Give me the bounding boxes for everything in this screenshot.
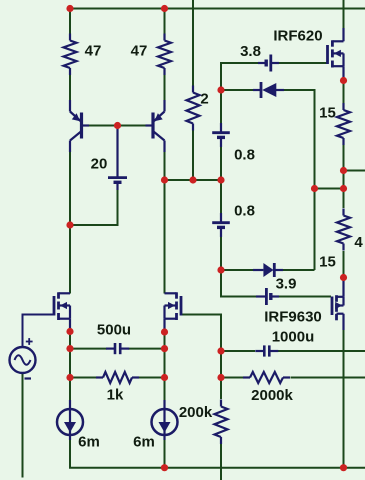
wire Q1-Q2 base link — [83, 125, 152, 127]
svg-text:0.8: 0.8 — [234, 203, 255, 220]
wire 500u row right — [129, 348, 165, 350]
wire I2 to bottom rail — [164, 440, 166, 468]
battery 3.9 (IRF9630 gate bias) — [256, 288, 279, 305]
junction top rail / right 47 — [161, 5, 168, 12]
transistor Q2 (PNP right) — [146, 100, 165, 152]
wire battery 0.8 upper to y180 node — [220, 146, 222, 214]
resistor 200k — [215, 400, 228, 445]
current source 6m (right) — [152, 400, 178, 440]
wire 2000k row left — [221, 377, 243, 379]
resistor 2000k — [243, 372, 290, 383]
battery 20 (bias source) — [108, 126, 127, 190]
svg-text:200k: 200k — [179, 404, 213, 421]
wire 15-ohm to output node — [343, 145, 345, 171]
wire 1k row right — [139, 377, 165, 379]
svg-text:47: 47 — [85, 43, 102, 60]
junction output column / clamp link — [340, 185, 347, 192]
svg-text:3.8: 3.8 — [240, 43, 261, 60]
junction battery column / D1 row — [217, 86, 224, 93]
resistor 47 (left, x70) — [64, 34, 77, 76]
wire IRF9630 drain down to bottom rail — [343, 330, 345, 468]
wire AC source top to M1 gate — [23, 315, 54, 348]
wire left 47-ohm to Q1 emitter — [69, 73, 71, 104]
junction y180 at resistor 2 — [189, 176, 196, 183]
junction battery column / D2 row — [217, 266, 224, 273]
diode D1 (upper clamp, points left) — [253, 82, 284, 98]
capacitor 500u — [106, 343, 129, 354]
wire Q1 collector down to M1 drain — [69, 150, 71, 294]
battery 0.8 (lower) — [212, 213, 230, 237]
junction IRF620 source / 15 — [340, 77, 347, 84]
junction bottom rail / IRF9630 drain — [340, 464, 347, 471]
wire lower diode node down + 3.9 row left — [221, 270, 257, 297]
battery 3.8 (IRF620 gate bias) — [258, 55, 279, 72]
transistor Q1 (PNP left) — [70, 100, 89, 152]
junction cap-20 return at left column — [66, 221, 73, 228]
wire IRF620 drain above top rail (exits image top) — [343, 0, 345, 28]
junction output node — [340, 167, 347, 174]
resistor 15 (upper) — [337, 103, 350, 145]
svg-text:1000u: 1000u — [272, 329, 315, 346]
wire AC source bottom (ends near image bottom) — [22, 373, 24, 478]
wire lower 15-ohm to IRF9630 source node — [343, 251, 345, 278]
wire 1000u row left — [221, 350, 255, 352]
resistor 2 — [187, 86, 200, 131]
MOSFET IRF9630 — [332, 278, 344, 331]
svg-text:3.9: 3.9 — [276, 276, 297, 293]
wire 3.8 row right segment to IRF620 gate — [273, 62, 328, 64]
wire clamp mid link to output column — [315, 188, 344, 190]
svg-text:6m: 6m — [78, 434, 100, 451]
wire left 47-ohm branch upper — [69, 9, 71, 37]
MOSFET M2 (right input, feedback) — [165, 292, 182, 332]
wire M1 source column — [69, 332, 71, 403]
svg-text:1k: 1k — [107, 387, 124, 404]
wire right 47-ohm to Q2 emitter — [164, 73, 166, 104]
wire I1 to bottom rail corner — [70, 440, 365, 468]
junction right column / 1k — [161, 374, 168, 381]
junction left column / 500u — [66, 345, 73, 352]
junction top rail / left 47 — [66, 5, 73, 12]
resistor 1k — [96, 372, 139, 383]
svg-text:IRF620: IRF620 — [273, 28, 322, 45]
wire 500u row left — [70, 348, 107, 350]
wire right 47-ohm branch upper — [164, 9, 166, 37]
AC source V1 — [10, 347, 36, 373]
wire D2 row right — [282, 269, 315, 271]
wire D1 row left — [221, 89, 253, 91]
battery 0.8 (upper) — [212, 123, 230, 147]
wire output node to clamp link — [343, 171, 345, 190]
diode D2 (lower clamp, points right) — [253, 263, 283, 277]
junction left column / 1k — [66, 374, 73, 381]
svg-text:2000k: 2000k — [251, 387, 293, 404]
svg-text:4: 4 — [354, 234, 363, 251]
junction feedback node / 2000k — [217, 374, 224, 381]
minus mark of AC source — [25, 377, 32, 379]
wire 3.8 row left segment — [221, 62, 259, 64]
wire top +V rail — [69, 8, 365, 10]
wire battery 0.8 lower to lower diode node — [220, 236, 222, 270]
svg-text:15: 15 — [319, 254, 336, 271]
resistor 47 (right, x164) — [158, 34, 171, 76]
junction base node / battery 20 — [114, 122, 121, 129]
junction bottom rail / I2 — [161, 464, 168, 471]
wire y180 cross link — [165, 179, 222, 181]
capacitor 1000u — [255, 345, 278, 356]
wire 1000u row right to right edge — [278, 350, 365, 352]
wire output node stub to right edge — [344, 170, 365, 172]
svg-text:47: 47 — [131, 43, 148, 60]
wire Q2 collector down to M2 drain — [164, 150, 166, 294]
svg-text:500u: 500u — [97, 322, 131, 339]
wire clamp link to lower 15-ohm — [343, 189, 345, 209]
wire resistor-2 bottom to y180 node — [192, 130, 194, 180]
junction 15 / IRF9630 source — [340, 274, 347, 281]
junction clamp vertical / mid link — [311, 185, 318, 192]
MOSFET M1 (left input) — [54, 292, 70, 332]
current source 6m (left) — [57, 400, 83, 440]
junction feedback node / 1000u — [217, 347, 224, 354]
junction M1 source lead — [66, 328, 73, 335]
MOSFET IRF620 — [328, 28, 344, 81]
wire diode node down to battery 0.8 upper — [220, 90, 222, 124]
svg-text:0.8: 0.8 — [234, 147, 255, 164]
junction right column / 500u — [161, 345, 168, 352]
svg-text:2: 2 — [200, 91, 208, 108]
wire D2 row left — [221, 269, 253, 271]
plus mark of AC source — [26, 338, 33, 345]
junction M2 source lead — [161, 328, 168, 335]
junction y180 at battery column — [217, 176, 224, 183]
wire IRF620 source to 15-ohm — [343, 81, 345, 104]
svg-text:6m: 6m — [133, 434, 155, 451]
wire corner 3.8 down to diode node — [220, 62, 222, 90]
wire resistor-2 top (exits image top) — [192, 0, 194, 86]
wire cap-20 bottom return to left column — [70, 189, 118, 225]
wire 200k bottom crossing rail (exits image bottom) — [220, 444, 222, 480]
junction y180 at Q2 collector line — [161, 176, 168, 183]
wire M2 gate feedback + down to 1000u node — [182, 315, 221, 400]
svg-text:20: 20 — [91, 156, 108, 173]
wire 1k row left — [70, 377, 96, 379]
svg-text:15: 15 — [319, 105, 336, 122]
wire 2000k row right to right edge — [291, 377, 365, 379]
wire D1 row right + right clamp vertical — [283, 90, 315, 270]
wire M2 source column — [164, 332, 166, 402]
resistor 15 (lower) — [337, 209, 350, 251]
svg-text:IRF9630: IRF9630 — [264, 309, 322, 326]
wire 3.9 row right to IRF9630 gate — [273, 296, 332, 298]
